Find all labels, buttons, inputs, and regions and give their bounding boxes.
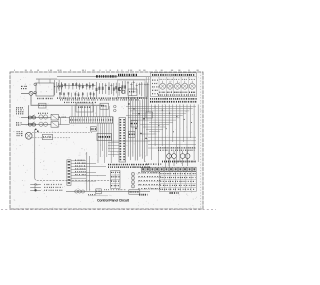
wire bottom bus (66, 191, 150, 193)
capacitor C141 (96, 189, 102, 194)
wire fan dashed run2 (32, 137, 70, 139)
label harness rows (75, 160, 84, 161)
fan motor M101 (25, 132, 32, 139)
LED D124 (155, 167, 159, 171)
indicator lamp L104 (182, 83, 188, 89)
transformer secondary dot (34, 91, 37, 94)
relay contact box K101 (51, 114, 58, 120)
wire runs to driver stage (148, 136, 196, 138)
plug connector P101 (29, 91, 33, 95)
indicator lamp L103 (174, 83, 180, 89)
schematic border frame (10, 72, 203, 209)
panel title underline (151, 76, 197, 78)
frame inner right dotted line (200, 72, 202, 209)
wire stub under bus (88, 195, 108, 197)
microcontroller IC U105 pin column (119, 118, 126, 163)
scan tint over schematic area (10, 72, 203, 209)
resistor network box RN102 (129, 132, 136, 138)
contact column K111 (131, 172, 134, 175)
wire fan horizontal runs (126, 105, 196, 107)
wire feed vertical (27, 105, 29, 124)
LED D1211 (188, 167, 192, 171)
buzzer BZ101 (129, 190, 140, 194)
LED D129 (179, 167, 183, 171)
LED D127 (169, 167, 173, 171)
relay contact box K102 (51, 122, 58, 128)
label bus annotations (64, 102, 96, 103)
wire central bus (127, 96, 129, 157)
label connector pin numbers row1 (150, 98, 197, 100)
wire bus panel-to-board (151, 105, 153, 161)
switch SW101 (29, 116, 32, 119)
indicator lamp L101 (160, 83, 166, 89)
LED D122 (146, 167, 150, 171)
inductor L111 (75, 190, 78, 193)
label center rows (108, 164, 148, 166)
capacitor bank C101-C120 (58, 84, 96, 86)
wire nested bus verticals (145, 77, 147, 112)
wire main horizontal bus (31, 104, 105, 106)
wire fan dashed run1 (32, 132, 92, 134)
diode D111 (114, 105, 117, 108)
panel cell dividers (158, 77, 160, 97)
rectifier D101 cluster (54, 80, 56, 95)
thermostat box TH101 (42, 134, 52, 139)
label connector pin numbers row2 (150, 101, 197, 103)
label CN101 (96, 75, 117, 77)
wire top supply bus (57, 75, 150, 77)
wire transformer top feed (36, 78, 57, 80)
wire switch row1 (21, 117, 51, 119)
table caption right (170, 192, 180, 194)
wire transformer lower link (33, 93, 36, 95)
label bus annotation (104, 189, 126, 190)
LED D128 (174, 167, 178, 171)
driver IC U102 (90, 127, 96, 131)
panel left label column (152, 80, 158, 81)
frame column tick labels (14, 70, 199, 71)
capacitor C131 (39, 115, 43, 119)
wire loop to bottom (35, 178, 113, 180)
terminal block TB101 (111, 171, 121, 189)
transistor Q112 (180, 154, 185, 159)
wire transistor stems (168, 151, 170, 154)
label row2 text (16, 122, 22, 123)
transistor Q111 (167, 154, 172, 159)
IC regulator U101 (128, 89, 137, 96)
LED D126 (165, 167, 169, 171)
signal list center (138, 173, 162, 175)
fuse F101 cluster (37, 98, 53, 99)
wire CN102 top stubs (71, 106, 73, 117)
panel title text (152, 74, 194, 76)
page fold dashed line (1, 209, 216, 211)
wire harness fan (71, 160, 86, 162)
wire left drop (34, 129, 36, 178)
label AC input (21, 86, 27, 87)
LED D1212 (193, 167, 197, 171)
LED D1210 (183, 167, 187, 171)
relay RY101 (100, 103, 109, 109)
wire CN102 bottom stubs (97, 123, 99, 163)
wire switch row2 (21, 124, 51, 126)
label POWER SW text block (16, 107, 23, 108)
svg-text:Control Panel Circuit: Control Panel Circuit (97, 199, 130, 203)
sub-board outline (118, 80, 146, 97)
panel bottom labels (158, 94, 196, 95)
indicator lamp L102 (167, 83, 173, 89)
operation panel enclosure (151, 73, 197, 97)
wire secondary bus (36, 78, 150, 80)
legend ac line (30, 186, 41, 188)
capacitor C132 (39, 122, 43, 126)
legend dc line (30, 189, 41, 191)
label transistor refs (162, 161, 196, 163)
wire rows to board (60, 118, 62, 125)
transistor Q101 (118, 87, 121, 90)
signal table right (160, 172, 197, 192)
label power unit title (118, 74, 137, 77)
breaker box CB101 (39, 103, 47, 108)
wire NF output run (112, 140, 151, 142)
wire AC line (21, 93, 29, 95)
connector CN102 strip (70, 117, 113, 123)
label transistor annotations (158, 147, 195, 148)
buffer box U103 (146, 112, 153, 118)
junction dots fan (154, 106, 155, 107)
switch SW102 (29, 123, 32, 126)
label fan text block (17, 131, 23, 132)
LED D123 (151, 167, 155, 171)
label center table caption (139, 194, 148, 196)
indicator lamp L105 (189, 83, 195, 89)
wire vertical pair (86, 152, 88, 191)
wire fan node (35, 129, 37, 131)
power transformer T101 (36, 83, 54, 96)
legend signal line (30, 184, 41, 186)
resistor network box RN101 (131, 121, 138, 128)
label component values row (57, 97, 147, 99)
wire far right verticals (197, 105, 199, 163)
LED D121 (141, 167, 145, 171)
noise filter NF101 (97, 133, 112, 140)
IC box U106 (76, 103, 93, 112)
transformer primary dot (34, 83, 37, 86)
connector CN103 (67, 160, 71, 186)
LED D125 (160, 167, 164, 171)
